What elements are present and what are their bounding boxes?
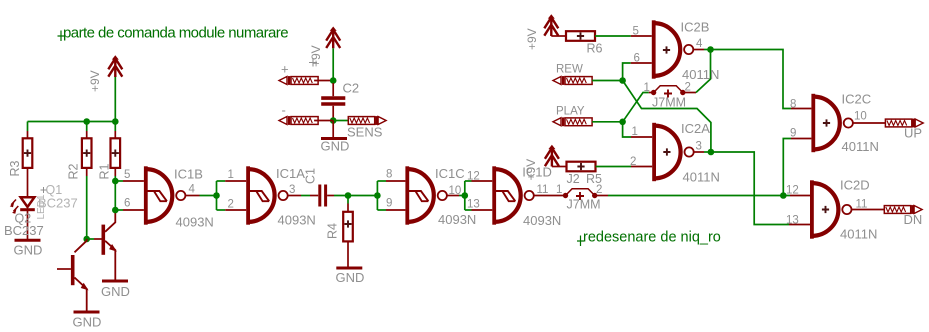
svg-text:J2: J2 (567, 172, 580, 186)
wire R1 column (114, 176, 116, 211)
svg-text:IC1B: IC1B (174, 167, 203, 182)
text title "parte de comanda module numarare" (58, 25, 289, 42)
svg-text:5: 5 (124, 169, 130, 181)
svg-text:+9V: +9V (88, 70, 102, 92)
wire IC2A out to IC2D pin13 (711, 152, 789, 225)
resistor R3 (23, 122, 33, 168)
wire R2 column (86, 176, 88, 239)
connector pad + (279, 76, 333, 85)
svg-text:R4: R4 (326, 223, 340, 239)
wire +9V to R5 (552, 166, 567, 168)
wire IC1C output (447, 195, 459, 197)
junction IC2A out (708, 149, 715, 156)
junction long net at IC2D pin12 (780, 192, 787, 199)
svg-text:10: 10 (854, 111, 867, 123)
wire PLAY to J7MM pin1 (623, 93, 649, 122)
svg-text:6: 6 (634, 53, 640, 65)
wire to IC2C pin9 (783, 139, 791, 196)
svg-text:4093N: 4093N (438, 212, 476, 227)
svg-text:1: 1 (556, 184, 562, 196)
junction on bus at R2 (83, 118, 90, 125)
capacitor C1 (320, 185, 326, 207)
wire +9V to R6 (551, 35, 566, 37)
svg-text:IC2B: IC2B (681, 20, 710, 35)
wire IC1B output (185, 195, 199, 197)
wire R5 to IC2A pin2 (596, 166, 632, 168)
svg-text:parte de comanda module numara: parte de comanda module numarare (63, 25, 288, 42)
svg-text:DN: DN (904, 212, 923, 227)
svg-text:IC1C: IC1C (435, 166, 465, 181)
ground under Q2 (73, 312, 102, 330)
transistor Q1 (94, 211, 115, 280)
svg-text:GND: GND (321, 139, 350, 154)
op-amp gate IC1B (144, 166, 186, 224)
svg-text:3: 3 (696, 141, 702, 153)
ground under C2 (321, 139, 350, 154)
wire C2 node to ground (332, 121, 334, 138)
wire IC2A output (694, 151, 704, 153)
ground under Q1 (101, 281, 130, 299)
junction pin5 (112, 178, 119, 185)
svg-text:J7MM: J7MM (652, 96, 686, 110)
svg-text:R1: R1 (98, 163, 112, 179)
text note "redesenare de niq_ro" (577, 230, 721, 247)
junction IC1C input (374, 192, 381, 199)
wire IC1A input tie (216, 181, 218, 210)
wire PLAY to IC2A pin1 (623, 122, 631, 137)
connector pad - (279, 116, 333, 125)
wire REW to IC2B pin6 (623, 63, 631, 81)
svg-text:4011N: 4011N (842, 139, 879, 154)
wire IC1D output (534, 195, 566, 197)
svg-text:BC237: BC237 (4, 223, 44, 238)
ground under LED (14, 240, 43, 257)
jumper J7MM (bottom) (563, 189, 598, 200)
op-amp gate IC1A (246, 166, 288, 224)
svg-text:8: 8 (386, 169, 392, 181)
nand gate IC2D (810, 180, 852, 238)
wire +9V to node (332, 48, 334, 80)
supply +9V arrow (C2) (326, 27, 340, 49)
wire base link (87, 238, 94, 240)
wire IC2B out to IC2C pin8 (711, 50, 792, 109)
svg-text:R5: R5 (586, 172, 602, 186)
wire R6 to IC2B pin5 (595, 35, 631, 37)
ground under R4 (336, 268, 365, 285)
resistor R4 (343, 196, 353, 267)
wire C1 to IC1C (327, 195, 334, 197)
junction on bus at R1 (112, 118, 119, 125)
svg-text:GND: GND (73, 315, 102, 330)
transistor Q2 (57, 239, 87, 311)
svg-text:GND: GND (336, 270, 365, 285)
svg-text:1: 1 (228, 169, 234, 181)
svg-text:4011N: 4011N (840, 227, 877, 242)
op-amp gate IC1D (492, 166, 534, 224)
wire top bus (28, 121, 116, 123)
wire +9V drop (114, 77, 116, 122)
wire REW cross diagonal (623, 81, 711, 153)
svg-text:4: 4 (189, 184, 196, 196)
nand gate IC2A (652, 123, 694, 181)
svg-text:redesenare de niq_ro: redesenare de niq_ro (583, 230, 721, 246)
connector PLAY (553, 117, 623, 126)
svg-text:REW: REW (556, 64, 583, 76)
svg-text:4093N: 4093N (523, 213, 561, 228)
svg-text:IC2C: IC2C (842, 92, 872, 107)
connector DN (884, 205, 922, 214)
supply +9V arrow (R6) (544, 14, 558, 36)
wire IC2C output to UP (853, 122, 886, 124)
svg-text:C1: C1 (304, 168, 318, 184)
svg-text:+: + (281, 62, 289, 77)
resistor R2 (82, 122, 92, 177)
nand gate IC2B (652, 20, 694, 78)
svg-text:8: 8 (790, 99, 796, 111)
svg-text:+9V: +9V (309, 45, 323, 67)
supply +9V arrow (left) (108, 55, 122, 77)
junction pin6 (112, 207, 119, 214)
svg-text:+9V: +9V (524, 159, 538, 181)
svg-text:2: 2 (630, 156, 636, 168)
svg-text:+9V: +9V (525, 28, 539, 50)
svg-text:R3: R3 (8, 160, 22, 176)
junction C2 top (330, 77, 337, 84)
svg-text:13: 13 (467, 199, 480, 211)
origin cross of + connector (309, 59, 317, 67)
connector UP (885, 119, 923, 128)
wire J7MM pin2 to IC2B out (683, 92, 696, 94)
resistor R5 (567, 162, 596, 172)
supply +9V arrow (R5) (545, 145, 559, 167)
wire pin6 IC1B (115, 209, 123, 211)
wire IC1A output (288, 195, 301, 197)
svg-text:5: 5 (633, 26, 639, 38)
svg-text:-: - (282, 103, 286, 118)
wire IC2B output (693, 49, 704, 51)
svg-text:R2: R2 (67, 163, 81, 179)
wire J7MM bottom to IC2D pin12 (595, 195, 608, 197)
svg-text:6: 6 (124, 198, 130, 210)
capacitor C2 (321, 83, 345, 118)
op-amp gate IC1C (405, 166, 447, 224)
wire pin5 IC1B (115, 180, 123, 182)
junction R4 top (345, 192, 352, 199)
junction PLAY node (619, 119, 626, 126)
svg-text:11: 11 (537, 184, 549, 196)
svg-text:SENS: SENS (347, 125, 383, 140)
label Q1 (overlapping) (41, 183, 63, 197)
svg-text:3: 3 (289, 184, 295, 196)
resistor R1 (111, 122, 121, 177)
svg-text:2: 2 (228, 199, 234, 211)
svg-text:12: 12 (467, 171, 480, 183)
svg-text:GND: GND (14, 243, 43, 258)
jumper J7MM (top) (649, 86, 686, 98)
junction REW node (619, 77, 626, 84)
svg-text:4: 4 (696, 38, 703, 50)
junction C2 bottom (330, 117, 337, 124)
nand gate IC2C (811, 94, 853, 152)
svg-text:4093N: 4093N (176, 215, 214, 230)
svg-text:C2: C2 (343, 81, 360, 96)
junction R2/Q1 base node (83, 236, 90, 243)
svg-text:PLAY: PLAY (556, 106, 585, 118)
svg-text:9: 9 (790, 128, 796, 140)
svg-text:12: 12 (786, 185, 799, 197)
svg-text:GND: GND (101, 284, 130, 299)
svg-text:IC2A: IC2A (681, 121, 710, 136)
junction IC1B out (213, 192, 220, 199)
LED D1 (10, 168, 35, 239)
svg-text:9: 9 (386, 198, 392, 210)
svg-text:1: 1 (644, 82, 650, 94)
svg-text:UP: UP (904, 126, 922, 141)
wire IC2D output to DN (852, 209, 885, 211)
svg-text:4093N: 4093N (278, 213, 316, 228)
svg-text:IC1A: IC1A (276, 166, 305, 181)
svg-text:IC2D: IC2D (840, 178, 870, 193)
svg-text:J7MM: J7MM (567, 198, 601, 212)
wire IC1C input tie (376, 181, 378, 210)
svg-text:LED1: LED1 (36, 194, 47, 219)
connector SENS (333, 116, 386, 125)
resistor R6 (566, 31, 595, 41)
svg-text:13: 13 (786, 215, 799, 227)
svg-text:4011N: 4011N (682, 67, 719, 82)
svg-text:1: 1 (632, 126, 638, 138)
svg-text:4011N: 4011N (683, 170, 720, 185)
wire IC1D input tie (464, 181, 466, 210)
junction IC2B out (707, 46, 714, 53)
connector REW (553, 76, 623, 85)
junction IC1C out (462, 192, 469, 199)
svg-text:R6: R6 (587, 42, 603, 56)
